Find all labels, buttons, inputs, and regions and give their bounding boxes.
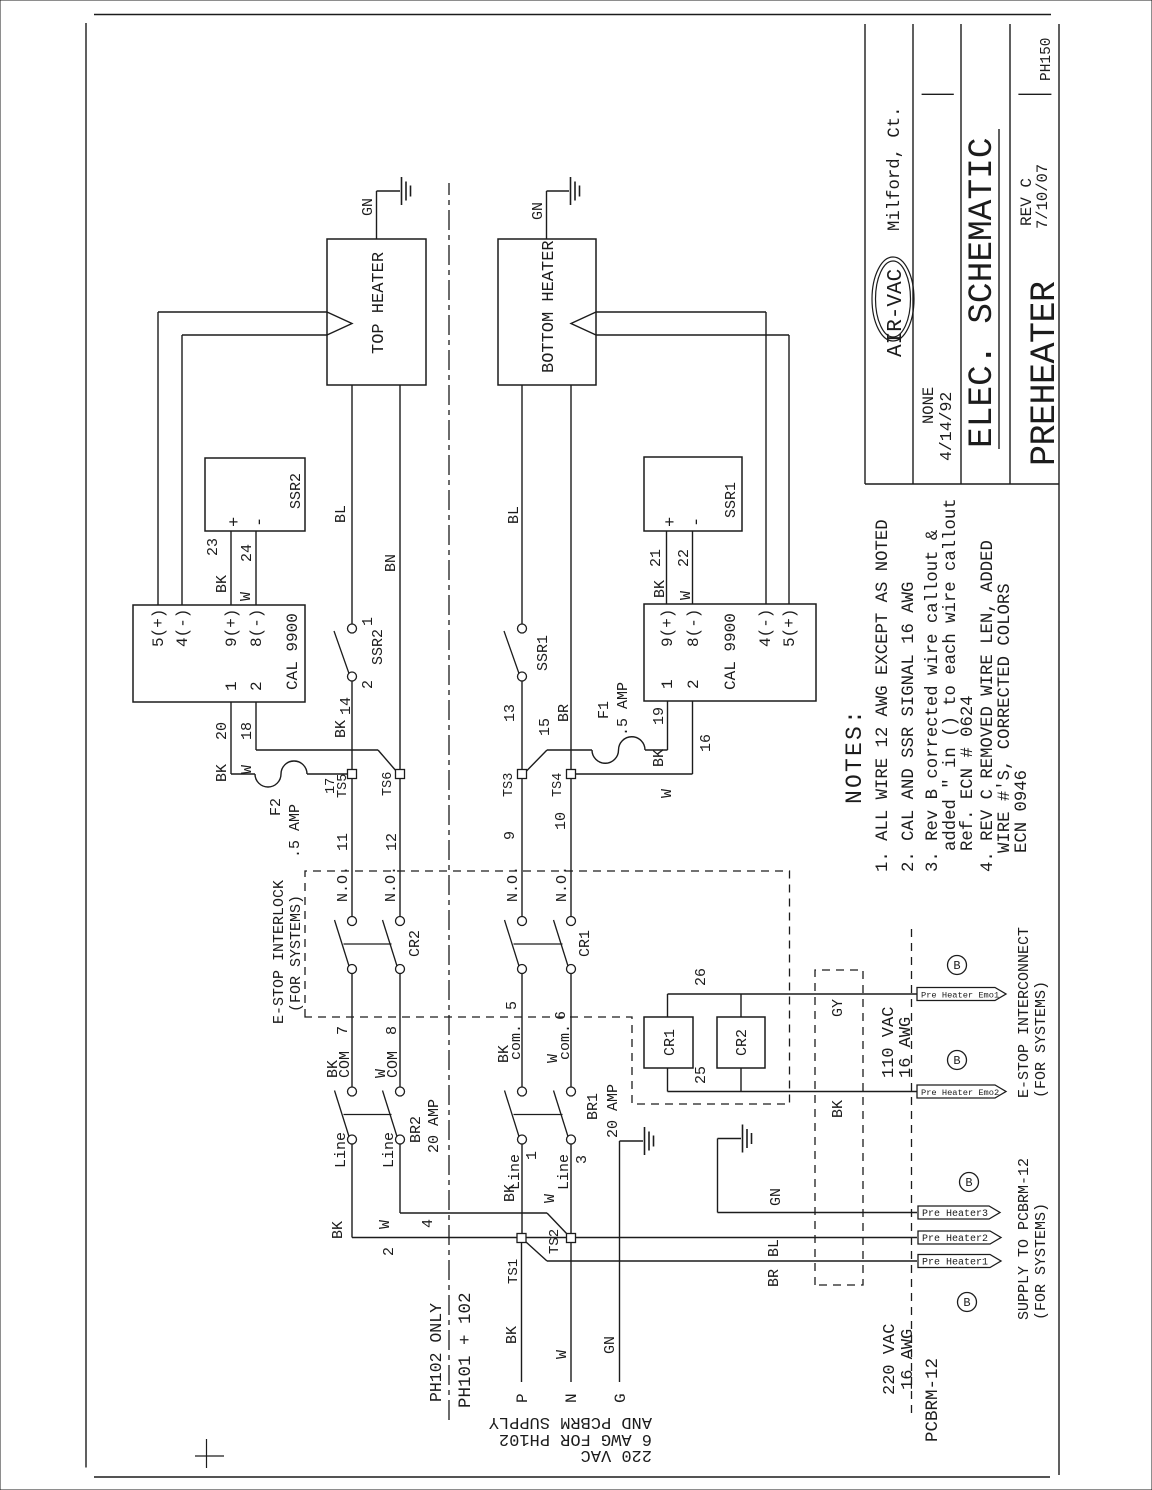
wire N 220VAC supply xyxy=(554,1243,581,1404)
wire GN (bottom heater) xyxy=(530,191,547,239)
svg-text:20 AMP: 20 AMP xyxy=(605,1084,622,1138)
svg-text:CR2: CR2 xyxy=(407,930,424,957)
svg-text:P: P xyxy=(514,1393,532,1403)
svg-text:9: 9 xyxy=(502,831,519,840)
svg-text:BL: BL xyxy=(766,1239,783,1257)
svg-text:BK: BK xyxy=(504,1326,521,1344)
drawing number PH150 xyxy=(1039,37,1055,81)
svg-text:9(+): 9(+) xyxy=(223,609,241,647)
svg-text:GN: GN xyxy=(530,202,547,220)
wire G 220VAC supply xyxy=(602,1141,630,1403)
svg-text:BK: BK xyxy=(214,764,231,782)
svg-text:21: 21 xyxy=(648,549,665,567)
svg-text:2: 2 xyxy=(685,679,703,689)
connector Pre Heater Emo2 xyxy=(917,1085,1006,1098)
svg-text:GN: GN xyxy=(360,198,377,216)
solid state relay SSR2 xyxy=(205,458,305,531)
label E-STOP INTERLOCK xyxy=(271,880,305,1024)
balloon B (heater3) xyxy=(960,1173,979,1192)
wire 25 (coil feed left) xyxy=(668,1066,742,1092)
svg-text:B: B xyxy=(965,1176,972,1190)
svg-text:5(+): 5(+) xyxy=(781,609,799,647)
net boundary: dash-dot separator line xyxy=(448,183,450,1420)
svg-text:3: 3 xyxy=(574,1155,591,1164)
svg-text:220 VAC: 220 VAC xyxy=(581,1445,652,1464)
svg-text:BOTTOM HEATER: BOTTOM HEATER xyxy=(540,240,559,373)
wire 4 (W Line) BR2 to TS2 xyxy=(377,1132,568,1235)
svg-text:BK: BK xyxy=(333,720,350,738)
svg-text:BL: BL xyxy=(333,505,350,523)
svg-text:BR1: BR1 xyxy=(585,1093,602,1120)
wire 3 (W Line) BR1 to TS2 xyxy=(542,1144,591,1233)
svg-text:7/10/07: 7/10/07 xyxy=(1034,164,1052,229)
ground (GN branch) xyxy=(718,1125,752,1153)
svg-text:E-STOP INTERLOCK: E-STOP INTERLOCK xyxy=(271,880,288,1024)
solid state relay SSR1 xyxy=(644,457,742,531)
svg-text:7: 7 xyxy=(335,1026,352,1035)
bottom heater BH xyxy=(498,239,596,385)
bus BL to Pre Heater1 xyxy=(526,1239,917,1287)
svg-text:GN: GN xyxy=(768,1188,785,1206)
wire 18 (W) CAL pin2 to TS6 xyxy=(239,702,397,774)
svg-text:PREHEATER: PREHEATER xyxy=(1025,281,1065,466)
svg-text:6: 6 xyxy=(553,1011,570,1020)
wire 5 (BK com.) CR1 to BR1 xyxy=(496,974,525,1088)
label E-STOP INTERCONNECT xyxy=(1016,927,1050,1098)
svg-text:W: W xyxy=(238,592,255,601)
wire 24 (W) CAL8 to SSR2- xyxy=(238,531,256,605)
svg-text:9(+): 9(+) xyxy=(659,609,677,647)
label NONE 4/14/92 xyxy=(920,387,956,461)
svg-text:1: 1 xyxy=(524,1151,541,1160)
svg-text:4/14/92: 4/14/92 xyxy=(937,392,956,461)
svg-text:25: 25 xyxy=(693,1066,710,1084)
svg-text:N: N xyxy=(563,1393,581,1403)
svg-text:8(-): 8(-) xyxy=(248,609,266,647)
wire 20 (BK) CAL pin1 to fuse F2 xyxy=(214,702,255,782)
bus BK to Pre Heater2 xyxy=(352,1237,917,1239)
ground (top heater) xyxy=(377,177,411,205)
svg-text:Milford, Ct.: Milford, Ct. xyxy=(886,107,905,231)
svg-text:13: 13 xyxy=(502,704,519,722)
svg-text:CAL 9900: CAL 9900 xyxy=(284,613,302,690)
svg-text:BK: BK xyxy=(651,749,668,767)
svg-text:Line: Line xyxy=(556,1154,573,1190)
svg-text:Line: Line xyxy=(333,1132,350,1168)
label SUPPLY TO PCBRM-12 xyxy=(1016,1158,1050,1320)
AIR-VAC logo xyxy=(872,257,914,357)
label REV C 7/10/07 xyxy=(1018,164,1052,229)
relay contacts CR1 xyxy=(502,812,594,974)
svg-text:CAL 9900: CAL 9900 xyxy=(722,613,740,690)
title block xyxy=(865,24,1059,484)
svg-text:CR2: CR2 xyxy=(734,1029,751,1056)
svg-text:BK: BK xyxy=(830,1100,847,1118)
wire pin5(+) to TOP HEATER xyxy=(158,312,327,605)
terminal TS2 xyxy=(547,1229,576,1254)
ground (supply G) xyxy=(620,1127,654,1155)
wire 13 TS3 to switch SSR1 xyxy=(502,681,522,770)
svg-text:1: 1 xyxy=(659,679,677,689)
svg-text:GN: GN xyxy=(602,1336,619,1354)
label PCBRM-12 xyxy=(923,1358,943,1442)
connector Pre Heater Emo1 xyxy=(917,988,1006,1001)
relay coil CR1 xyxy=(644,1017,693,1068)
svg-text:5(+): 5(+) xyxy=(150,609,168,647)
svg-text:BR: BR xyxy=(766,1269,783,1287)
terminal TS6 xyxy=(381,770,405,797)
controller CAL 9900 (top) xyxy=(133,605,305,702)
switch SSR1 output contact xyxy=(504,624,552,681)
svg-text:BR: BR xyxy=(556,704,573,722)
svg-text:16: 16 xyxy=(698,734,715,752)
svg-text:CR1: CR1 xyxy=(577,930,594,957)
svg-text:1. ALL WIRE 12 AWG EXCEPT AS N: 1. ALL WIRE 12 AWG EXCEPT AS NOTED xyxy=(874,519,893,872)
svg-text:TS5: TS5 xyxy=(336,774,351,798)
wire 1 (BK Line) BR1 to TS1 xyxy=(502,1144,541,1233)
relay contacts CR2 xyxy=(335,833,425,974)
svg-text:.5 AMP: .5 AMP xyxy=(287,804,304,858)
svg-text:BL: BL xyxy=(506,506,523,524)
svg-text:BK: BK xyxy=(330,1221,347,1239)
wire 8 (W COM) CR2 to BR2 xyxy=(373,974,402,1088)
svg-text:B: B xyxy=(953,1054,960,1068)
wire 16 (W) CAL pin2 to TS4 xyxy=(576,701,716,798)
svg-text:NOTES:: NOTES: xyxy=(842,708,868,804)
svg-text:B: B xyxy=(963,1296,970,1310)
svg-text:Ref. ECN # 0624: Ref. ECN # 0624 xyxy=(959,695,978,851)
svg-text:2. CAL AND SSR SIGNAL 16 AWG: 2. CAL AND SSR SIGNAL 16 AWG xyxy=(900,582,919,872)
svg-text:SSR1: SSR1 xyxy=(723,482,740,518)
balloon B (Emo2) xyxy=(948,1051,967,1070)
svg-text:W: W xyxy=(554,1350,571,1359)
svg-text:18: 18 xyxy=(239,722,256,740)
svg-text:TOP HEATER: TOP HEATER xyxy=(370,252,389,354)
svg-text:SSR1: SSR1 xyxy=(535,635,552,671)
harness boundary (dashed) xyxy=(815,970,863,1285)
svg-text:(FOR SYSTEMS): (FOR SYSTEMS) xyxy=(1033,1203,1050,1320)
svg-text:CR1: CR1 xyxy=(662,1029,679,1056)
svg-text:TS1: TS1 xyxy=(506,1259,522,1284)
svg-text:com.: com. xyxy=(557,1024,574,1060)
svg-text:12: 12 xyxy=(384,833,401,851)
svg-text:4(-): 4(-) xyxy=(174,609,192,647)
svg-text:W: W xyxy=(659,789,676,798)
svg-text:-: - xyxy=(251,517,270,527)
svg-text:TS4: TS4 xyxy=(551,773,566,797)
connector Pre Heater1 xyxy=(918,1255,1001,1269)
wire BL to BOTTOM HEATER xyxy=(506,385,523,624)
svg-text:(FOR SYSTEMS): (FOR SYSTEMS) xyxy=(288,895,305,1012)
svg-text:TS6: TS6 xyxy=(381,772,396,796)
switch SSR2 output contact xyxy=(334,617,387,689)
svg-text:Pre Heater3: Pre Heater3 xyxy=(922,1209,988,1220)
wire 2 (BK Line) BR2 to bus xyxy=(330,1132,398,1256)
svg-text:15: 15 xyxy=(537,718,554,736)
terminal TS5 xyxy=(324,770,357,799)
svg-text:BR2: BR2 xyxy=(408,1116,425,1143)
label 220 VAC 16 AWG xyxy=(881,1324,918,1395)
balloon B (supply) xyxy=(958,1293,977,1312)
svg-text:PH102 ONLY: PH102 ONLY xyxy=(427,1303,446,1402)
svg-text:16 AWG: 16 AWG xyxy=(899,1329,918,1390)
svg-text:AIR-VAC: AIR-VAC xyxy=(885,269,908,357)
wire 14 (BK) TS5 to switch SSR2 xyxy=(333,681,355,770)
svg-text:W: W xyxy=(542,1194,559,1203)
svg-text:Pre Heater Emo1: Pre Heater Emo1 xyxy=(921,991,999,1001)
svg-text:1: 1 xyxy=(223,681,241,691)
svg-text:TS3: TS3 xyxy=(502,773,517,797)
bus GY to Pre Heater Emo1 xyxy=(741,994,917,1017)
label 110 VAC 16 AWG xyxy=(880,1007,916,1078)
svg-text:+: + xyxy=(226,517,245,527)
svg-text:PCBRM-12: PCBRM-12 xyxy=(923,1358,943,1442)
svg-text:G: G xyxy=(612,1393,630,1403)
svg-text:W: W xyxy=(678,591,695,600)
wire pin4(-) to BOTTOM HEATER xyxy=(596,312,766,604)
balloon B (Emo1) xyxy=(948,956,967,975)
svg-text:22: 22 xyxy=(676,549,693,567)
svg-text:5: 5 xyxy=(504,1001,521,1010)
interconnect boundary (dashed) xyxy=(911,926,913,1413)
svg-text:COM: COM xyxy=(337,1051,354,1078)
svg-text:Pre Heater1: Pre Heater1 xyxy=(922,1258,988,1269)
wire BL to TOP HEATER xyxy=(333,385,352,624)
wire GN (top heater) xyxy=(360,191,377,239)
svg-text:.5 AMP: .5 AMP xyxy=(615,682,632,736)
wire 23 (BK) CAL9 to SSR2+ xyxy=(205,531,231,605)
svg-text:W: W xyxy=(239,765,256,774)
svg-text:11: 11 xyxy=(335,833,352,851)
wire 19 (BK) CAL pin1 to fuse F1 xyxy=(645,701,668,767)
svg-text:16 AWG: 16 AWG xyxy=(897,1017,916,1078)
svg-text:24: 24 xyxy=(239,544,256,562)
terminal TS3 xyxy=(502,770,527,798)
connector Pre Heater3 xyxy=(918,1206,1000,1220)
supply note 220 VAC 6 AWG (rotated) xyxy=(489,1412,652,1464)
wire pin5(+) to BOTTOM HEATER xyxy=(596,335,789,604)
bus BK to Pre Heater Emo2 xyxy=(741,1092,917,1119)
wire 9/10 segment TS to CR1 xyxy=(522,779,571,917)
svg-text:PH150: PH150 xyxy=(1039,37,1055,81)
ground (bottom heater) xyxy=(547,177,580,205)
wire pin4(-) to TOP HEATER xyxy=(182,335,327,605)
svg-text:com.: com. xyxy=(508,1024,525,1060)
svg-text:B: B xyxy=(953,959,960,973)
svg-text:ECN 0946: ECN 0946 xyxy=(1013,770,1032,853)
svg-text:E-STOP INTERCONNECT: E-STOP INTERCONNECT xyxy=(1016,927,1033,1098)
fuse F2 .5 AMP xyxy=(255,761,347,858)
svg-text:14: 14 xyxy=(338,697,355,715)
svg-text:TS2: TS2 xyxy=(547,1229,563,1254)
svg-text:19: 19 xyxy=(651,707,668,725)
wire GN branch xyxy=(718,1139,786,1213)
svg-text:+: + xyxy=(662,517,681,527)
wire 22 (W) CAL8 to SSR1- xyxy=(676,531,695,604)
svg-text:4: 4 xyxy=(420,1219,437,1228)
label PH101 + 102 xyxy=(456,1292,476,1408)
svg-text:Pre Heater2: Pre Heater2 xyxy=(922,1234,988,1245)
notes xyxy=(842,498,1032,872)
wire 6 (W com.) CR1 to BR1 xyxy=(545,974,574,1088)
svg-text:Line: Line xyxy=(381,1132,398,1168)
bus GN to Pre Heater3 xyxy=(718,1212,918,1214)
svg-text:SUPPLY TO PCBRM-12: SUPPLY TO PCBRM-12 xyxy=(1016,1158,1033,1320)
svg-text:20: 20 xyxy=(214,722,231,740)
relay coil CR2 xyxy=(717,1017,765,1068)
terminal TS1 xyxy=(506,1234,526,1285)
svg-text:F1: F1 xyxy=(596,701,613,719)
svg-text:26: 26 xyxy=(693,968,710,986)
svg-text:PH101 + 102: PH101 + 102 xyxy=(456,1292,476,1408)
label PH102 ONLY xyxy=(427,1303,446,1402)
fuse F1 .5 AMP xyxy=(527,682,646,771)
label Milford, Ct. xyxy=(886,107,905,231)
svg-text:-: - xyxy=(688,517,707,527)
svg-text:(FOR SYSTEMS): (FOR SYSTEMS) xyxy=(1033,981,1050,1098)
wire 7 (BK COM) CR2 to BR2 xyxy=(325,974,354,1088)
svg-text:2: 2 xyxy=(381,1247,398,1256)
breaker BR1 20 AMP xyxy=(505,1084,623,1144)
title ELEC. SCHEMATIC xyxy=(963,129,1002,449)
svg-text:SSR2: SSR2 xyxy=(288,473,305,509)
wire BR TS4 to BOTTOM HEATER xyxy=(556,385,573,770)
svg-text:AND PCBRM SUPPLY: AND PCBRM SUPPLY xyxy=(489,1412,652,1431)
E-stop interlock boundary (dashed) xyxy=(305,871,790,1104)
svg-text:W: W xyxy=(377,1220,394,1229)
svg-text:BK: BK xyxy=(214,575,231,593)
svg-text:1: 1 xyxy=(360,617,377,626)
svg-text:Pre Heater Emo2: Pre Heater Emo2 xyxy=(921,1088,999,1098)
svg-text:20 AMP: 20 AMP xyxy=(426,1099,443,1153)
wire P 220VAC supply xyxy=(504,1243,532,1404)
svg-text:8: 8 xyxy=(384,1026,401,1035)
svg-text:23: 23 xyxy=(205,538,222,556)
svg-text:220 VAC: 220 VAC xyxy=(881,1324,900,1395)
connector Pre Heater2 xyxy=(918,1231,1001,1245)
svg-text:10: 10 xyxy=(553,812,570,830)
svg-text:ELEC. SCHEMATIC: ELEC. SCHEMATIC xyxy=(963,137,1002,448)
wire 11/12 segment TS to CR2 xyxy=(352,779,400,917)
svg-text:3. Rev B corrected wire callou: 3. Rev B corrected wire callout & xyxy=(924,530,943,872)
top heater TH xyxy=(327,239,426,385)
wire 21 (BK) CAL9 to SSR1+ xyxy=(648,531,669,604)
title PREHEATER xyxy=(1025,281,1065,466)
svg-text:BK: BK xyxy=(652,580,669,598)
svg-text:SSR2: SSR2 xyxy=(370,629,387,665)
breaker BR2 20 AMP xyxy=(335,1087,444,1153)
svg-text:F2: F2 xyxy=(268,798,285,816)
svg-text:NONE: NONE xyxy=(920,387,938,424)
svg-text:8(-): 8(-) xyxy=(685,609,703,647)
svg-text:4(-): 4(-) xyxy=(757,609,775,647)
svg-text:BK: BK xyxy=(502,1184,519,1202)
svg-text:2: 2 xyxy=(248,681,266,691)
svg-text:2: 2 xyxy=(360,680,377,689)
svg-text:GY: GY xyxy=(830,999,847,1017)
svg-text:COM: COM xyxy=(385,1051,402,1078)
terminal TS4 xyxy=(537,718,576,797)
wire BN TS6 to TOP HEATER xyxy=(383,385,400,770)
controller CAL 9900 (bottom) xyxy=(644,604,816,701)
svg-text:BN: BN xyxy=(383,554,400,572)
wire 26 (coil feed right) xyxy=(668,968,742,1017)
